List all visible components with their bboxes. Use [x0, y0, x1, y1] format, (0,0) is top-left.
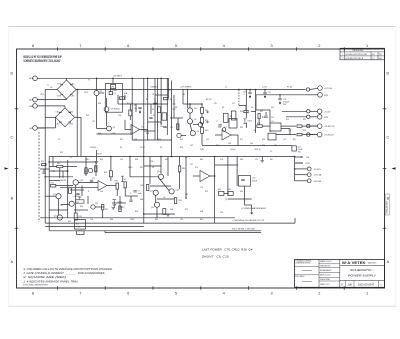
wire RTN stub [295, 162, 303, 164]
wire vertical rail D [227, 157, 229, 197]
svg-text:C43: C43 [228, 143, 231, 145]
wire IC4 output [210, 175, 215, 177]
svg-text:+15V ADJ: +15V ADJ [73, 195, 81, 198]
svg-text:VR1: VR1 [111, 87, 115, 89]
resistor R78 [119, 206, 121, 212]
border tick top [343, 47, 345, 51]
wire R44 to R45 [224, 192, 228, 194]
capacitor C21 can [292, 146, 296, 151]
wire feeder [147, 78, 149, 140]
svg-text:+13.5V: +13.5V [324, 111, 331, 113]
capacitor C22 [90, 180, 93, 181]
wire CR9A stub [173, 95, 175, 104]
svg-text:C25: C25 [120, 159, 123, 161]
svg-text:RTN: RTN [306, 163, 311, 165]
svg-text:R8 220: R8 220 [206, 99, 212, 101]
svg-text:R74: R74 [262, 145, 265, 147]
wire to Q11 base [45, 195, 56, 197]
connector P3 pin +30.4V [307, 167, 311, 171]
diode CR11b [206, 121, 209, 123]
resistor R33 [74, 213, 77, 220]
svg-text:+30.4V/#: +30.4V/# [313, 169, 322, 171]
svg-text:R19: R19 [286, 119, 289, 121]
svg-text:R20 1K: R20 1K [255, 149, 262, 151]
wire AC-H to +5V regulator bus [37, 77, 168, 79]
resistor R35 [116, 183, 118, 189]
wire Q6a base [193, 124, 198, 126]
wire AC-N to bridge CR1 [37, 99, 66, 101]
svg-text:CR5: CR5 [56, 111, 60, 113]
resistor R5 [158, 107, 161, 113]
svg-text:R39: R39 [165, 159, 168, 161]
wire node G [228, 198, 252, 200]
wire R41 to Q16 [179, 172, 181, 189]
revision table column line [377, 52, 379, 60]
title block bottom row line [340, 280, 385, 282]
svg-text:4: 4 [223, 291, 225, 295]
svg-text:C44: C44 [250, 143, 253, 145]
svg-text:CR10: CR10 [248, 121, 253, 123]
capacitor C16 [42, 172, 45, 173]
capacitor C7 [218, 125, 221, 126]
title block mid row line [319, 280, 340, 282]
svg-text:R71: R71 [206, 139, 209, 141]
svg-text:10uF: 10uF [138, 193, 142, 195]
title block logo underline [340, 264, 385, 266]
connector P2 pin +27V [318, 86, 323, 91]
svg-text:Q17: Q17 [151, 207, 154, 209]
border frame [17, 49, 385, 288]
wire Q20 out [95, 206, 104, 208]
svg-text:C13: C13 [218, 127, 221, 129]
svg-text:+27V 1A: +27V 1A [324, 87, 332, 90]
wire C19 stub [264, 90, 266, 92]
bridge rectifier CR5-CR8 [56, 108, 75, 127]
wire node J [155, 94, 168, 96]
connector J1 pin AC-H [33, 76, 38, 81]
wire C4 drop [150, 104, 152, 114]
svg-text:0101-00-0547: 0101-00-0547 [387, 200, 389, 214]
svg-text:C: C [386, 136, 389, 140]
connector P2 pin RTN2 [317, 115, 322, 120]
title block bottom divider [378, 281, 380, 288]
zener diode CR12 [113, 200, 116, 205]
junction [294, 156, 296, 158]
svg-text:1. # INDICATES AVERAGE PANEL T: 1. # INDICATES AVERAGE PANEL TRIM. [23, 279, 78, 283]
zener diode CR10 [243, 119, 246, 124]
wire +13.5V line [282, 110, 307, 112]
svg-text:Q11: Q11 [53, 194, 56, 196]
wire node L [148, 121, 161, 123]
svg-text:-15V/.4A: -15V/.4A [313, 180, 321, 183]
wire E1 to +13.5V pin [310, 110, 317, 112]
svg-text:R73: R73 [240, 139, 243, 141]
resistor R23 [297, 133, 302, 135]
svg-text:SHUNT C8, C10: SHUNT C8, C10 [202, 256, 230, 259]
resistor R45 [228, 191, 233, 195]
wire rail drop to Q14 [160, 157, 162, 175]
svg-text:CR6: CR6 [69, 111, 73, 113]
svg-text:8: 8 [32, 44, 34, 48]
svg-text:4. COLORED CALLOUTS INDICATE F: 4. COLORED CALLOUTS INDICATE FRONT/OPTIO… [23, 267, 113, 271]
title block divider [339, 259, 341, 287]
svg-text:2: 2 [342, 58, 343, 60]
wire U1 output [281, 125, 296, 127]
wire Q14 feed [144, 165, 161, 167]
wire to +21V terminal [302, 125, 318, 127]
fuse F1 terminal [306, 88, 309, 91]
junction [160, 156, 162, 158]
svg-text:+27V UNREG: +27V UNREG [180, 87, 192, 89]
ground G5 [279, 100, 281, 104]
svg-text:CR13: CR13 [85, 159, 89, 161]
wire C25a stub [130, 196, 132, 199]
wire block node 4 [45, 226, 144, 228]
wire internal rail A [67, 160, 69, 218]
transistor Q13 [57, 215, 62, 220]
svg-text:Q8: Q8 [225, 199, 227, 201]
wire R7 down [129, 116, 131, 120]
rectifier CR9 [111, 84, 116, 88]
wire Q10 emitter drop [75, 185, 77, 213]
wire bus drop to Q4 [187, 90, 189, 109]
transistor Q10 [73, 180, 78, 185]
svg-text:0101-00-0547: 0101-00-0547 [358, 282, 375, 286]
border tick top [295, 47, 297, 51]
wire Q11 to Q12 [61, 204, 69, 206]
svg-text:7: 7 [79, 291, 81, 295]
svg-text:8: 8 [32, 291, 34, 295]
wire bridge CR5 left vertex [45, 116, 55, 118]
title block bottom divider [345, 281, 347, 288]
svg-text:C29: C29 [255, 159, 258, 161]
wire node M [49, 180, 60, 182]
border tick left [15, 168, 19, 170]
svg-text:C27: C27 [190, 164, 193, 166]
svg-text:R41: R41 [182, 168, 185, 170]
wire node Q2 [112, 202, 126, 204]
wire AC-L to left rail [37, 127, 45, 129]
svg-text:C31: C31 [200, 187, 203, 189]
svg-text:100: 100 [134, 108, 137, 110]
wire node D [157, 198, 174, 200]
connector J1 pin AC-L [33, 126, 38, 131]
wire R30 out [63, 166, 77, 168]
svg-text:C5: C5 [160, 123, 162, 125]
resistor R28 [95, 166, 97, 172]
revision table column line [370, 52, 372, 60]
svg-text:C15: C15 [283, 139, 286, 141]
resistor R17a [258, 114, 260, 119]
capacitor C19 [263, 92, 266, 93]
svg-text:7: 7 [79, 44, 81, 48]
wire node P2 [74, 209, 88, 211]
svg-text:Q# 2N3055 HEATSINK ASSY: Q# 2N3055 HEATSINK ASSY [241, 207, 267, 210]
svg-text:R69: R69 [158, 139, 161, 141]
svg-text:L1: L1 [225, 87, 227, 89]
junction [246, 89, 248, 91]
svg-text:2. SQUARE ARE (REF) .: 2. SQUARE ARE (REF) . [22, 275, 69, 279]
svg-text:C28: C28 [220, 159, 223, 161]
revision table row line [340, 55, 385, 57]
terminal E1 [307, 110, 310, 113]
resistor R36 [124, 182, 126, 188]
svg-text:R22: R22 [303, 119, 306, 121]
wire R36 down [124, 188, 126, 196]
transistor Q6 [190, 131, 195, 136]
border tick top [152, 47, 154, 51]
wire Q10 base feed [45, 176, 73, 178]
resistor R22 [297, 125, 302, 127]
svg-text:IC1: IC1 [141, 127, 144, 129]
svg-text:CR2: CR2 [71, 84, 75, 86]
title block mid row line [319, 271, 340, 273]
wire to ground G8 [251, 205, 253, 211]
transistor Q3 [107, 126, 112, 131]
svg-text:CR7: CR7 [56, 123, 60, 125]
wire regulator block left edge [48, 157, 50, 231]
resistor R76 [69, 188, 72, 194]
resistor R13 [201, 128, 204, 134]
wire feeder [157, 78, 159, 140]
svg-text:PROJ ENGR: PROJ ENGR [295, 276, 305, 278]
svg-text:R72: R72 [216, 145, 219, 147]
transistor Q7 [222, 128, 226, 132]
border tick top [248, 47, 250, 51]
svg-text:L2: L2 [168, 90, 170, 92]
svg-text:R40: R40 [141, 185, 144, 187]
wire Q19 out [181, 135, 186, 137]
svg-text:D: D [386, 72, 389, 76]
wire +27V unregulated bus [76, 89, 306, 91]
wire feeder to +30V rail [171, 81, 173, 157]
wire U1 top lead [269, 110, 271, 123]
resistor R42 [174, 198, 176, 204]
wire IC2 input [215, 134, 222, 136]
transistor Q6a [198, 122, 202, 126]
resistor R4 [177, 124, 179, 130]
resistor R11 [201, 108, 204, 114]
resistor R3 [164, 98, 169, 100]
svg-text:115/230: 115/230 [90, 147, 96, 149]
svg-text:R42: R42 [179, 200, 182, 202]
title block signature dash [302, 269, 312, 271]
svg-text:R65: R65 [86, 115, 89, 117]
revision table [340, 48, 385, 60]
border tick bottom [104, 286, 106, 290]
svg-text:1N4148: 1N4148 [60, 180, 66, 182]
wire feeder corner [168, 78, 170, 98]
bridge rectifier CR1-CR4 [57, 80, 76, 99]
svg-text:8-4: 8-4 [372, 54, 375, 56]
border tick top [200, 47, 202, 51]
svg-text:POWER SUPPLY: POWER SUPPLY [348, 273, 377, 277]
svg-text:GND: GND [29, 106, 34, 108]
wire CR9 to R1 [110, 89, 112, 92]
ground G7 [261, 161, 265, 163]
svg-text:C2: C2 [155, 103, 157, 105]
svg-text:R50 .1 5W R51 .1 5W CR20: R50 .1 5W R51 .1 5W CR20 [232, 229, 255, 231]
wire resistor column top [201, 104, 203, 108]
junction [187, 89, 189, 91]
wire riser G [167, 157, 169, 176]
svg-text:ECN 83-0415 PROD REL: ECN 83-0415 PROD REL [346, 54, 368, 56]
wire to Q4 collector [189, 104, 191, 108]
op-amp IC2 [222, 130, 231, 140]
wire node L2 [144, 130, 155, 132]
svg-text:CR9: CR9 [174, 107, 177, 109]
wire left rail upper [44, 90, 46, 129]
svg-text:.47: .47 [163, 197, 165, 199]
svg-text:R34: R34 [104, 172, 107, 174]
svg-text:.1 5W: .1 5W [76, 227, 81, 229]
svg-text:+: + [95, 167, 96, 169]
wire R35 down [116, 189, 118, 196]
svg-text:6: 6 [127, 291, 129, 295]
wire C17 stub [249, 90, 251, 92]
svg-text:R25: R25 [240, 127, 243, 129]
potentiometer R37 [76, 200, 84, 203]
transistor Q19 [177, 133, 181, 137]
wire bridge CR5 riser [80, 117, 82, 156]
svg-text:Q5: Q5 [194, 119, 196, 121]
title block signature dash 2 [302, 281, 312, 283]
junction [143, 213, 145, 215]
wire node E [144, 213, 175, 215]
wire rail drop to R34 [110, 157, 112, 171]
svg-text:Q9: Q9 [185, 157, 187, 159]
wire drop to U1 [255, 90, 257, 124]
transistor Q17 [154, 202, 159, 207]
svg-text:T1: T1 [47, 85, 49, 87]
transistor Q2 [104, 107, 109, 112]
wire left rail [44, 128, 46, 223]
wire +30V rail [49, 156, 294, 158]
border tick right [383, 227, 387, 229]
svg-text:C22: C22 [52, 171, 55, 173]
svg-text:SCHEMATIC -: SCHEMATIC - [350, 268, 374, 272]
wire to -15V pin [295, 180, 308, 182]
svg-text:R26: R26 [262, 139, 265, 141]
svg-text:R43: R43 [200, 159, 203, 161]
svg-text:ECN 84-0102 REV B: ECN 84-0102 REV B [346, 58, 364, 60]
svg-text:R57: R57 [185, 209, 188, 211]
wire IC4 input [193, 175, 200, 177]
capacitor C18 [278, 98, 281, 99]
svg-text:C12: C12 [288, 130, 291, 132]
ground G1 [95, 162, 99, 164]
svg-text:#18 AWG: #18 AWG [150, 86, 158, 89]
resistor R77 [102, 205, 104, 210]
svg-text:+30.4V: +30.4V [96, 154, 103, 156]
resistor R30 [57, 165, 63, 167]
wire aux node [40, 168, 49, 170]
junction [171, 156, 173, 158]
wire AC-L in [37, 127, 55, 129]
svg-text:T2: T2 [58, 139, 60, 141]
revision table column line [344, 48, 346, 60]
wire feeder [143, 78, 145, 223]
wire C2 stub [154, 98, 156, 103]
wire ground bus [40, 217, 235, 219]
wire to U2 [255, 123, 257, 133]
svg-text:3: 3 [271, 44, 273, 48]
wire node H3 [124, 95, 126, 100]
wire feeder [160, 78, 162, 125]
junction [214, 156, 216, 158]
capacitor C25a [129, 200, 132, 201]
wire node K [177, 118, 179, 131]
svg-text:C39: C39 [134, 139, 137, 141]
wire IC1 output [140, 129, 148, 131]
chassis dashed boundary [38, 132, 40, 222]
wire stub bridge CR1 bottom [66, 98, 68, 101]
wire return bus [256, 94, 306, 96]
svg-text:C30: C30 [252, 178, 255, 180]
svg-text:3: 3 [271, 291, 273, 295]
svg-text:Q2 2N3055: Q2 2N3055 [111, 109, 120, 111]
transistor Q18 [88, 168, 92, 172]
svg-text:C42: C42 [190, 145, 193, 147]
border tick bottom [343, 286, 345, 290]
svg-text:2-1: 2-1 [372, 58, 375, 60]
wire to C21 [238, 145, 292, 147]
wire block riser 2 [95, 162, 97, 176]
wire riser H [185, 157, 187, 198]
svg-text:R62: R62 [200, 219, 203, 221]
svg-text:R7: R7 [130, 111, 132, 113]
svg-text:+ C4: + C4 [151, 115, 155, 117]
wire R11 to R12 [201, 113, 203, 117]
wire U2 output [276, 134, 296, 136]
wire rail drop B [129, 157, 131, 177]
svg-text:5: 5 [175, 291, 177, 295]
svg-text:R55: R55 [105, 209, 108, 211]
wire feeder [166, 78, 168, 135]
svg-text:R3: R3 [146, 99, 148, 101]
svg-text:C26: C26 [150, 161, 153, 163]
ground G3 [249, 94, 251, 98]
wire node N [52, 157, 54, 167]
resistor R34 [109, 171, 112, 177]
wire R34 out [110, 177, 112, 181]
resistor R63 [85, 168, 87, 174]
svg-text:C8: C8 [251, 107, 253, 109]
wire Q1 collector drop [96, 96, 98, 129]
wire node Q [119, 196, 121, 210]
junction [255, 89, 257, 91]
title block divider [318, 259, 320, 287]
wire node O [81, 186, 83, 196]
junction [76, 89, 78, 91]
transistor Q14 [158, 174, 163, 179]
svg-text:C23: C23 [84, 171, 87, 173]
transistor Q11 [56, 194, 61, 199]
svg-text:+5V REG: +5V REG [113, 76, 123, 78]
svg-text:+30.4V: +30.4V [230, 149, 236, 151]
wire to Q3 base [97, 128, 107, 130]
wire block node 2 [49, 170, 67, 172]
zener diode CR9A [173, 104, 176, 109]
wire IC2 output [231, 134, 238, 136]
wire node P [87, 196, 89, 204]
border tick bottom [248, 286, 250, 290]
wire vertical rail E [236, 157, 238, 187]
connector P2 pin +21.4V [317, 124, 322, 129]
resistor R1 [109, 92, 113, 95]
capacitor C4 [149, 118, 152, 119]
svg-text:C9: C9 [270, 151, 272, 153]
